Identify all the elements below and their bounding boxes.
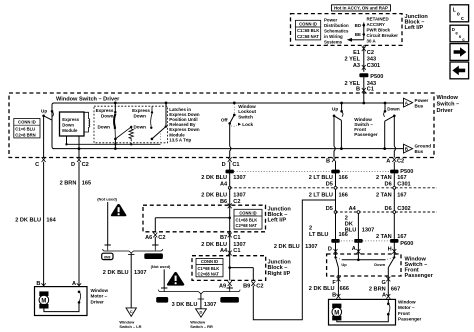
splice P600 on wire 1307b bbox=[354, 239, 362, 243]
svg-text:C: C bbox=[130, 309, 133, 314]
svg-text:Up: Up bbox=[41, 108, 47, 113]
toolbar button LOC bbox=[450, 5, 469, 22]
wire 2 DK BLU 1307 below C301 bbox=[201, 192, 245, 198]
svg-text:A9: A9 bbox=[219, 284, 226, 290]
express down switches dashed sub-box bbox=[94, 106, 168, 143]
note text Latches in Express Down Position Until Released By Express Down Module 13.5 A Trip bbox=[169, 107, 200, 143]
svg-text:2 DK BLU: 2 DK BLU bbox=[201, 242, 227, 248]
svg-text:2 DK BLU: 2 DK BLU bbox=[274, 244, 300, 250]
svg-text:Switch – RR: Switch – RR bbox=[190, 324, 213, 329]
driver up switch SW1 bbox=[41, 108, 53, 120]
pin A into FP switch bbox=[352, 246, 361, 254]
svg-text:30 A: 30 A bbox=[367, 39, 377, 44]
svg-text:Down: Down bbox=[97, 125, 110, 130]
wire 2 BRN 165 (driver down to motor A) bbox=[60, 162, 92, 279]
svg-text:M: M bbox=[41, 298, 46, 304]
svg-text:3 DK BLU: 3 DK BLU bbox=[172, 302, 198, 308]
svg-text:(Not used): (Not used) bbox=[97, 197, 117, 202]
junction block right IP dashed box bbox=[192, 256, 266, 281]
svg-text:A4: A4 bbox=[220, 182, 228, 188]
svg-text:C2: C2 bbox=[82, 162, 89, 168]
terminal BE bbox=[355, 32, 365, 37]
svg-text:C2: C2 bbox=[158, 235, 165, 241]
label Window Switch Front Passenger bbox=[405, 256, 434, 279]
connector ID table (middle JB) bbox=[234, 209, 262, 229]
svg-text:Up: Up bbox=[332, 107, 338, 112]
svg-text:1307: 1307 bbox=[233, 175, 245, 181]
svg-text:Bus: Bus bbox=[415, 149, 424, 154]
svg-text:D5: D5 bbox=[326, 182, 333, 188]
junction block U1 "Junction Block - Left I/P" dashed box bbox=[291, 14, 403, 46]
svg-text:CONN ID: CONN ID bbox=[18, 120, 36, 125]
svg-text:Motor –: Motor – bbox=[91, 294, 108, 299]
FP switch up contact SW7 bbox=[334, 254, 347, 268]
svg-text:C2: C2 bbox=[397, 159, 404, 165]
svg-text:164: 164 bbox=[46, 218, 56, 224]
FP motor internal return wire bbox=[337, 299, 390, 321]
svg-text:2 BRN: 2 BRN bbox=[60, 180, 77, 186]
svg-text:Motor –: Motor – bbox=[398, 305, 415, 310]
svg-text:1307: 1307 bbox=[305, 244, 317, 250]
window lockout switch SW4 bbox=[221, 102, 257, 128]
svg-text:Down: Down bbox=[133, 113, 146, 118]
svg-text:Circuit Breaker: Circuit Breaker bbox=[367, 33, 399, 38]
wire express down module left leg to rail bbox=[65, 136, 67, 146]
svg-text:D: D bbox=[200, 310, 203, 315]
pin A9 out of right junction block bbox=[219, 281, 233, 291]
svg-text:A6: A6 bbox=[145, 235, 152, 241]
connector triangle C window switch LR bbox=[119, 308, 141, 329]
svg-text:M: M bbox=[334, 310, 339, 316]
toolbar button arrow left bbox=[450, 62, 469, 79]
internal bus of right junction block bbox=[228, 256, 253, 281]
svg-text:167: 167 bbox=[397, 192, 406, 198]
svg-text:Down: Down bbox=[133, 125, 146, 130]
pin E1 / C2 at junction block exit bbox=[353, 46, 374, 56]
pin D / C1 of driver switch bbox=[222, 157, 240, 168]
svg-text:C: C bbox=[35, 162, 39, 168]
svg-text:1307: 1307 bbox=[233, 192, 245, 198]
window motor driver box bbox=[35, 287, 88, 316]
svg-text:B: B bbox=[332, 293, 336, 299]
wire from driver up switch to pin C bbox=[43, 116, 45, 158]
warning triangle 2 bbox=[167, 272, 184, 286]
svg-text:A3: A3 bbox=[353, 63, 360, 69]
blade link resistor R1 bbox=[116, 126, 133, 146]
svg-text:667: 667 bbox=[391, 286, 400, 292]
svg-text:Left I/P: Left I/P bbox=[405, 25, 424, 31]
pin B9 / C2 out of right junction block bbox=[243, 281, 263, 289]
wire 2 LT BLU 166 (B pin down to FP switch D) bbox=[309, 162, 348, 254]
pin F out of FP switch bbox=[332, 268, 340, 297]
splice pack P600 dashed link bbox=[336, 240, 391, 242]
pin A of driver motor bbox=[72, 279, 81, 292]
note text Power Distribution Schematics in Wiring Systems bbox=[324, 17, 349, 44]
svg-text:Bus: Bus bbox=[415, 103, 424, 108]
connector ID table driver switch C1=6 BLU C2=8 BRN bbox=[14, 119, 40, 138]
svg-text:Down: Down bbox=[101, 113, 114, 118]
svg-text:Ground: Ground bbox=[415, 144, 432, 149]
svg-text:D: D bbox=[71, 162, 75, 168]
svg-text:Distribution: Distribution bbox=[324, 23, 349, 28]
svg-text:1307: 1307 bbox=[233, 242, 245, 248]
pin A / C2 of driver switch bbox=[386, 157, 404, 164]
splice P500 on wire 166 bbox=[331, 170, 339, 174]
wire 2 DK BLU 1307 between junction blocks bbox=[201, 232, 245, 256]
svg-text:13.5 A Trip: 13.5 A Trip bbox=[169, 137, 191, 142]
svg-text:C2: C2 bbox=[233, 199, 240, 205]
label Junction Block - Left I/P bbox=[405, 14, 429, 31]
toolbar button DESC bbox=[450, 25, 469, 42]
svg-text:C301: C301 bbox=[367, 63, 380, 69]
toolbar button arrow right bbox=[450, 44, 469, 61]
express down latching switch SW2 (thick blade) bbox=[96, 102, 117, 150]
svg-text:2 DK BLU: 2 DK BLU bbox=[201, 175, 227, 181]
pin D5 / C302 on wire 166 bbox=[326, 206, 337, 213]
svg-text:B7: B7 bbox=[220, 235, 227, 241]
label Junction Block - Left I/P (middle) bbox=[268, 206, 292, 223]
option brace 2 bbox=[159, 290, 241, 299]
in-line connector C301 dashed line bbox=[230, 187, 437, 189]
ground bus triangle B bbox=[404, 144, 432, 155]
front passenger down switch SW6 (in driver assembly) bbox=[383, 102, 400, 150]
svg-text:Power: Power bbox=[324, 17, 337, 22]
svg-text:Hot in ACCY, ON and RAP: Hot in ACCY, ON and RAP bbox=[334, 6, 388, 11]
option brace 1 (6N8 / w-o 6N8 merge) bbox=[103, 249, 163, 255]
svg-text:2 LT BLU: 2 LT BLU bbox=[309, 192, 333, 198]
wire 3 DK BLU 1307 to window switch RR bbox=[172, 294, 217, 309]
node (Not used) wire 1 bbox=[97, 197, 117, 251]
svg-text:A: A bbox=[352, 246, 356, 252]
svg-text:2 TAN: 2 TAN bbox=[376, 234, 392, 240]
svg-text:BE: BE bbox=[355, 32, 361, 37]
svg-text:Off: Off bbox=[221, 118, 228, 123]
svg-text:1307: 1307 bbox=[362, 228, 374, 234]
svg-text:Systems: Systems bbox=[324, 39, 343, 44]
svg-text:D: D bbox=[222, 162, 226, 168]
svg-text:C2=68 NAT: C2=68 NAT bbox=[236, 223, 258, 228]
svg-text:o: o bbox=[457, 12, 460, 18]
svg-text:C2=68 NAT: C2=68 NAT bbox=[297, 34, 319, 39]
svg-text:c: c bbox=[461, 16, 464, 22]
svg-text:ACCSRY: ACCSRY bbox=[367, 22, 385, 27]
pin B of driver switch bbox=[326, 157, 336, 164]
splice P500 on YEL wire bbox=[359, 73, 383, 80]
svg-text:BLU: BLU bbox=[345, 228, 357, 234]
power source label "Hot in ACCY, ON and RAP" bbox=[332, 5, 391, 11]
svg-text:343: 343 bbox=[367, 57, 376, 63]
warning triangle 1 bbox=[111, 204, 127, 216]
express down module U2 bbox=[60, 112, 85, 136]
wire breaker internal with arrow to power distribution bbox=[347, 23, 364, 42]
wire 2 DK BLU 666 bbox=[309, 286, 349, 292]
label Window Switch - Driver (right side) bbox=[437, 95, 460, 114]
terminal BD bbox=[355, 23, 365, 28]
svg-text:2 DK BLU: 2 DK BLU bbox=[309, 286, 335, 292]
svg-text:H: H bbox=[388, 246, 392, 252]
front passenger up switch SW5 (in driver assembly) bbox=[332, 102, 343, 150]
secondary rail (module to switch bottoms) bbox=[67, 143, 161, 145]
pin B into FP motor bbox=[332, 293, 340, 299]
svg-text:2 DK BLU: 2 DK BLU bbox=[201, 192, 227, 198]
internal bus of middle junction block bbox=[155, 205, 231, 232]
splice P600 on wire 167 with label bbox=[390, 239, 413, 247]
label Window Motor - Driver bbox=[91, 288, 109, 305]
svg-text:2 TAN: 2 TAN bbox=[376, 175, 392, 181]
option tag 6N8 (second) bbox=[156, 297, 168, 303]
window motor front passenger box bbox=[329, 299, 396, 325]
svg-text:w/o 6N8: w/o 6N8 bbox=[222, 298, 237, 302]
svg-text:C301: C301 bbox=[397, 182, 410, 188]
pin B / C1 into window switch driver bbox=[356, 87, 374, 93]
label Window Motor - Front Passenger bbox=[398, 300, 421, 322]
wire lockout switch to pin D/C1 (hops ground rail) bbox=[230, 123, 231, 157]
svg-text:Passenger: Passenger bbox=[398, 316, 421, 321]
svg-text:LT BLU: LT BLU bbox=[309, 232, 328, 238]
svg-text:E1: E1 bbox=[353, 50, 360, 56]
svg-text:D6: D6 bbox=[385, 182, 392, 188]
svg-text:2 BRN: 2 BRN bbox=[369, 286, 386, 292]
svg-text:Passenger: Passenger bbox=[405, 273, 434, 279]
wire 2 DK BLU 164 (driver up to motor B) bbox=[15, 162, 56, 279]
wire express down module right leg to pin D/C2 bbox=[78, 136, 81, 158]
option tag w/o 6N8 bbox=[144, 253, 163, 259]
svg-text:CONN ID: CONN ID bbox=[299, 21, 317, 26]
svg-text:C2=8 BRN: C2=8 BRN bbox=[15, 132, 35, 137]
svg-text:P600: P600 bbox=[400, 241, 413, 247]
svg-text:C1: C1 bbox=[232, 162, 239, 168]
svg-text:in Wiring: in Wiring bbox=[324, 34, 343, 39]
svg-text:C1=6 BLU: C1=6 BLU bbox=[15, 126, 35, 131]
svg-text:Down: Down bbox=[387, 107, 400, 112]
pin C of driver switch bbox=[35, 157, 45, 168]
wire 2 YEL 343 (lower) bbox=[345, 77, 377, 93]
svg-text:C1=68 BLK: C1=68 BLK bbox=[297, 28, 319, 33]
svg-text:2: 2 bbox=[309, 225, 312, 231]
svg-text:BD: BD bbox=[355, 23, 361, 28]
wire 2 YEL 343 (upper) bbox=[345, 45, 377, 71]
node (Not used) wire 2 bbox=[151, 264, 171, 291]
svg-text:A: A bbox=[386, 159, 390, 165]
connector ID table (right JB) bbox=[196, 258, 223, 276]
svg-text:Window: Window bbox=[437, 95, 459, 101]
coil element on express down module bbox=[84, 112, 90, 132]
connector ID table C1=68 BLK C2=68 NAT bbox=[296, 20, 321, 40]
svg-text:C1: C1 bbox=[233, 235, 240, 241]
pin A6 / C2 out of middle junction block bbox=[145, 233, 165, 251]
svg-text:B: B bbox=[405, 147, 408, 152]
option tag 6N8 bbox=[102, 253, 113, 259]
svg-text:C2: C2 bbox=[367, 50, 374, 56]
svg-text:166: 166 bbox=[339, 175, 348, 181]
svg-text:B: B bbox=[326, 159, 330, 165]
pin H into FP switch bbox=[388, 246, 397, 253]
pin D5 / C301 on wire 166 bbox=[326, 182, 337, 190]
svg-text:D6: D6 bbox=[385, 206, 392, 212]
svg-text:(Not used): (Not used) bbox=[151, 264, 171, 269]
FP switch down contact SW8 bbox=[374, 254, 395, 268]
svg-text:Driver: Driver bbox=[91, 299, 104, 304]
svg-text:6N8: 6N8 bbox=[159, 298, 166, 302]
svg-text:1307: 1307 bbox=[204, 302, 216, 308]
pin D into FP switch bbox=[328, 247, 338, 254]
svg-text:Driver: Driver bbox=[437, 108, 454, 114]
svg-text:Window: Window bbox=[91, 288, 109, 293]
express down switch SW3 (second) bbox=[132, 102, 167, 142]
svg-text:RETAINED: RETAINED bbox=[367, 17, 389, 22]
splice P500 on wire 1307 bbox=[226, 170, 234, 174]
junction block left IP (middle) dashed box bbox=[143, 205, 266, 232]
svg-text:C1=68 BLK: C1=68 BLK bbox=[236, 217, 258, 222]
wire 2 DK BLU 1307 (A4 C302 to FP switch A) bbox=[345, 206, 374, 260]
svg-text:Front: Front bbox=[398, 311, 410, 316]
connector triangle D window switch RR bbox=[190, 309, 213, 329]
svg-text:2 LT BLU: 2 LT BLU bbox=[309, 175, 333, 181]
window switch front passenger dashed box bbox=[327, 254, 401, 276]
svg-text:2 YEL: 2 YEL bbox=[345, 57, 361, 63]
pin A into FP motor bbox=[382, 293, 390, 299]
splice pack P500 dashed link bbox=[234, 170, 390, 172]
svg-text:Down: Down bbox=[374, 262, 385, 267]
circuit breaker "RETAINED ACCSRY PWR Block Circuit Breaker 30 A" bbox=[367, 17, 399, 44]
svg-text:2 DK BLU: 2 DK BLU bbox=[15, 218, 41, 224]
svg-text:Down: Down bbox=[62, 122, 74, 127]
svg-text:G: G bbox=[381, 280, 385, 286]
window switch driver dashed enclosure bbox=[9, 93, 434, 158]
svg-text:165: 165 bbox=[82, 180, 91, 186]
wire 2 BRN 667 bbox=[369, 286, 400, 292]
svg-text:B: B bbox=[36, 281, 40, 287]
ground bus rail (bottom) bbox=[53, 148, 404, 150]
svg-text:w/o 6N8: w/o 6N8 bbox=[146, 255, 161, 259]
svg-text:Module: Module bbox=[62, 128, 78, 133]
svg-text:Switch – LR: Switch – LR bbox=[119, 324, 141, 329]
pin B7 / C1 out of middle junction block bbox=[220, 233, 241, 241]
wire stub from B/C1 pin to power bus bbox=[362, 93, 365, 104]
in-line connector C302 dashed line bbox=[336, 211, 438, 213]
svg-text:1307: 1307 bbox=[134, 270, 146, 276]
pin D6 / C301 on wire 167 bbox=[385, 182, 411, 190]
svg-text:166: 166 bbox=[339, 192, 348, 198]
svg-text:Express: Express bbox=[62, 117, 79, 122]
svg-text:Lock: Lock bbox=[242, 122, 253, 127]
svg-text:C1=68 BLK: C1=68 BLK bbox=[198, 266, 220, 271]
svg-text:Window: Window bbox=[398, 300, 416, 305]
svg-text:C2: C2 bbox=[256, 284, 263, 290]
svg-text:Switch –: Switch – bbox=[437, 102, 460, 108]
svg-text:Left I/P: Left I/P bbox=[268, 218, 287, 224]
splice P500 on wire 167 with label bbox=[390, 169, 413, 175]
svg-text:B: B bbox=[356, 87, 360, 93]
svg-text:Right I/P: Right I/P bbox=[268, 271, 291, 277]
svg-text:B6: B6 bbox=[220, 199, 227, 205]
svg-text:CONN ID: CONN ID bbox=[239, 210, 256, 215]
power bus rail (top) bbox=[52, 103, 404, 149]
option tag w/o 6N8 (second) bbox=[220, 297, 239, 303]
svg-text:P500: P500 bbox=[370, 74, 383, 80]
wire 2 DK BLU 1307 route from B9 to LT BLU branch bbox=[253, 200, 335, 320]
svg-text:167: 167 bbox=[397, 234, 406, 240]
svg-text:B9: B9 bbox=[243, 284, 250, 290]
wire 2 TAN 167 (A pin down to FP switch H) bbox=[376, 162, 407, 254]
svg-text:C1: C1 bbox=[233, 248, 240, 254]
svg-text:Switch: Switch bbox=[238, 114, 253, 119]
splice P600 on wire 166 bbox=[331, 239, 339, 243]
svg-text:PWR B/ock: PWR B/ock bbox=[367, 28, 391, 33]
motor M2 front passenger bbox=[332, 304, 342, 321]
pin B of driver motor bbox=[36, 279, 45, 292]
svg-text:Power: Power bbox=[415, 98, 429, 103]
motor M1 driver bbox=[39, 291, 49, 308]
svg-text:666: 666 bbox=[340, 286, 349, 292]
svg-text:Schematics: Schematics bbox=[324, 28, 349, 33]
svg-text:Up: Up bbox=[341, 262, 347, 267]
svg-text:C302: C302 bbox=[397, 206, 410, 212]
svg-text:A: A bbox=[72, 281, 76, 287]
svg-text:A4: A4 bbox=[349, 206, 357, 212]
label Window Switch Front Passenger (inside driver box) bbox=[354, 117, 377, 137]
svg-text:A: A bbox=[382, 293, 386, 299]
pin B6 / C2 into junction block left IP bbox=[220, 199, 241, 208]
svg-text:Window Switch – Driver: Window Switch – Driver bbox=[56, 97, 120, 103]
pin A4 / C301 on wire 1307 bbox=[220, 182, 231, 190]
pin A4 / C1 into junction block right IP bbox=[220, 248, 241, 255]
svg-text:2 DK BLU: 2 DK BLU bbox=[103, 270, 129, 276]
svg-text:C1: C1 bbox=[367, 87, 374, 93]
pin A3 / C301 bbox=[353, 63, 380, 70]
FP switch internal bus bar bbox=[342, 259, 386, 262]
pin G out of FP switch bbox=[381, 268, 390, 297]
label Junction Block - Right I/P bbox=[268, 260, 292, 277]
wire front passenger up common to pin B bbox=[334, 116, 335, 158]
svg-text:2 TAN: 2 TAN bbox=[376, 192, 392, 198]
svg-text:L: L bbox=[453, 7, 456, 13]
power bus triangle A bbox=[404, 98, 429, 109]
wire 2 DK BLU 1307 (driver lockout output) upper bbox=[201, 162, 245, 205]
motor internal return wire bbox=[44, 291, 81, 312]
svg-text:A4: A4 bbox=[220, 248, 228, 254]
svg-text:CONN ID: CONN ID bbox=[201, 259, 218, 264]
pin D / C2 of driver switch bbox=[71, 157, 89, 168]
svg-text:D: D bbox=[328, 247, 332, 253]
svg-text:P500: P500 bbox=[400, 169, 413, 175]
svg-text:6N8: 6N8 bbox=[104, 255, 110, 259]
svg-text:167: 167 bbox=[397, 175, 406, 181]
wire 2 DK BLU 1307 to window switch LR bbox=[103, 253, 147, 308]
wire front passenger down common to pin A/C2 bbox=[394, 116, 395, 158]
svg-text:Passenger: Passenger bbox=[354, 132, 377, 137]
svg-text:D5: D5 bbox=[326, 206, 333, 212]
pin D6 / C302 on wire 167 bbox=[385, 206, 411, 213]
svg-text:C2=68 NAT: C2=68 NAT bbox=[198, 271, 220, 276]
